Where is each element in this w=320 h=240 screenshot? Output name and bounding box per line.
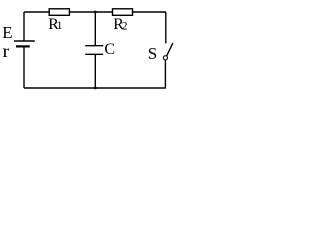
- svg-text:E: E: [2, 23, 12, 42]
- wire left lower: [23, 47, 25, 88]
- node junction top (capacitor tap): [94, 11, 97, 14]
- wire capacitor branch lower: [94, 54, 96, 88]
- capacitor C bottom plate: [85, 53, 103, 55]
- wire R1 to R2: [69, 11, 112, 13]
- wire bottom: [24, 87, 166, 89]
- switch S blade: [167, 43, 173, 56]
- capacitor C top plate: [85, 45, 103, 47]
- wire left upper: [23, 12, 25, 41]
- background: [0, 0, 182, 97]
- wire R2 to right corner: [133, 11, 166, 13]
- svg-text:S: S: [148, 44, 157, 63]
- wire right upper (to switch): [165, 12, 167, 43]
- svg-text:1: 1: [57, 19, 63, 32]
- battery E long plate: [14, 40, 35, 42]
- switch S pivot circle: [163, 56, 167, 60]
- wire capacitor branch upper: [94, 12, 96, 46]
- svg-text:r: r: [3, 41, 10, 61]
- battery E short plate: [16, 45, 30, 47]
- wire top-left segment: [24, 11, 49, 13]
- node junction bottom (capacitor tap): [94, 87, 97, 90]
- svg-text:2: 2: [122, 20, 128, 33]
- wire right lower: [164, 60, 166, 88]
- resistor R1: [49, 9, 69, 16]
- resistor R2: [113, 9, 133, 16]
- svg-text:C: C: [104, 41, 115, 58]
